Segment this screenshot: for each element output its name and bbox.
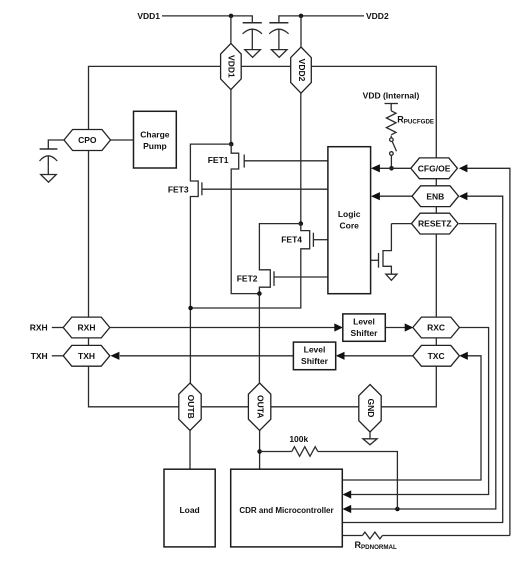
svg-text:Logic: Logic (338, 209, 361, 219)
svg-text:CPO: CPO (78, 135, 97, 145)
svg-text:TXH: TXH (31, 351, 48, 361)
svg-text:TXC: TXC (428, 351, 445, 361)
svg-text:PDNORMAL: PDNORMAL (361, 544, 397, 551)
svg-text:Charge: Charge (140, 130, 170, 140)
svg-text:ENB: ENB (426, 191, 444, 201)
svg-text:VDD1: VDD1 (227, 55, 237, 78)
svg-text:OUTA: OUTA (255, 395, 265, 418)
svg-text:Level: Level (353, 317, 375, 327)
svg-text:CDR and Microcontroller: CDR and Microcontroller (239, 506, 333, 515)
svg-text:Pump: Pump (143, 141, 167, 151)
svg-text:Level: Level (304, 345, 326, 355)
svg-text:VDD1: VDD1 (137, 11, 160, 21)
svg-text:VDD2: VDD2 (297, 59, 307, 82)
svg-text:RXH: RXH (78, 323, 96, 333)
svg-text:Core: Core (340, 221, 360, 231)
svg-text:Shifter: Shifter (301, 356, 329, 366)
svg-text:RXH: RXH (30, 323, 48, 333)
svg-text:RESETZ: RESETZ (418, 219, 452, 229)
svg-text:PUCFGDE: PUCFGDE (404, 118, 434, 125)
svg-text:GND: GND (366, 399, 376, 418)
svg-text:RXC: RXC (427, 323, 445, 333)
svg-text:VDD (Internal): VDD (Internal) (363, 90, 420, 100)
svg-text:FET1: FET1 (208, 155, 229, 165)
svg-text:OUTB: OUTB (186, 395, 196, 419)
svg-text:Load: Load (179, 505, 199, 515)
svg-text:100k: 100k (289, 434, 308, 444)
svg-text:Shifter: Shifter (351, 328, 379, 338)
svg-text:TXH: TXH (78, 351, 95, 361)
svg-text:FET2: FET2 (237, 273, 258, 283)
svg-text:FET3: FET3 (168, 184, 189, 194)
svg-text:FET4: FET4 (281, 235, 302, 245)
svg-text:VDD2: VDD2 (366, 11, 389, 21)
svg-text:CFG/OE: CFG/OE (418, 163, 451, 173)
